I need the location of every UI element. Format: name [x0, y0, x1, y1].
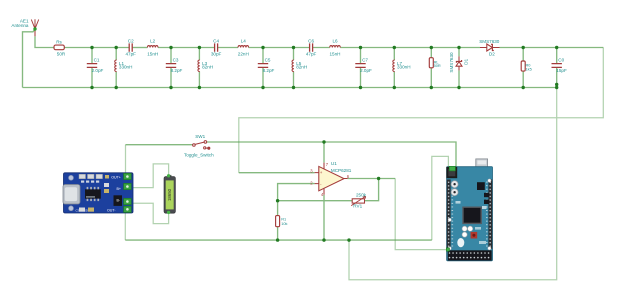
svg-text:82nH: 82nH [296, 64, 307, 69]
svg-text:50R: 50R [57, 52, 66, 57]
svg-text:L4: L4 [241, 39, 247, 44]
svg-text:8.2pF: 8.2pF [171, 68, 183, 73]
svg-text:Rs: Rs [56, 40, 62, 45]
svg-text:C2: C2 [128, 38, 134, 43]
svg-text:L2: L2 [150, 39, 156, 44]
svg-text:C6: C6 [308, 38, 314, 43]
svg-text:50R: 50R [434, 63, 441, 68]
svg-text:C0: C0 [558, 58, 564, 63]
svg-text:Toggle_Switch: Toggle_Switch [184, 153, 214, 158]
svg-text:30pF: 30pF [211, 52, 222, 57]
svg-text:D1: D1 [463, 58, 468, 64]
svg-text:47pF: 47pF [125, 52, 136, 57]
svg-text:1k5: 1k5 [526, 66, 532, 71]
svg-text:47pF: 47pF [306, 52, 317, 57]
svg-text:L6: L6 [332, 39, 338, 44]
svg-text:SW1: SW1 [195, 134, 205, 139]
svg-text:D2: D2 [489, 51, 495, 56]
svg-text:C7: C7 [362, 58, 368, 63]
svg-text:MCP6281: MCP6281 [331, 168, 352, 173]
svg-text:2.0pF: 2.0pF [360, 68, 372, 73]
svg-text:OUT-: OUT- [107, 208, 116, 212]
svg-text:RV1: RV1 [353, 203, 362, 208]
svg-text:C4: C4 [213, 38, 219, 43]
svg-text:330nH: 330nH [119, 64, 133, 69]
svg-text:B+: B+ [117, 187, 122, 191]
svg-text:82nH: 82nH [202, 64, 213, 69]
svg-text:U1: U1 [331, 161, 337, 166]
svg-text:C3: C3 [173, 58, 179, 63]
svg-text:8.2pF: 8.2pF [263, 68, 275, 73]
svg-text:C3: C3 [76, 209, 80, 213]
svg-text:22nH: 22nH [238, 52, 249, 57]
svg-text:15nH: 15nH [330, 52, 341, 57]
svg-text:15nH: 15nH [147, 52, 158, 57]
svg-text:SMS7630: SMS7630 [479, 39, 500, 44]
svg-text:C5: C5 [265, 58, 271, 63]
svg-text:SD: SD [84, 209, 88, 213]
svg-text:18650: 18650 [167, 188, 172, 201]
svg-text:C1: C1 [94, 58, 100, 63]
svg-text:250k: 250k [356, 193, 367, 198]
svg-text:Antenna: Antenna [11, 23, 29, 28]
svg-text:OUT+: OUT+ [111, 175, 121, 179]
svg-text:10k: 10k [281, 221, 287, 226]
svg-text:15pF: 15pF [556, 68, 567, 73]
svg-text:SMS7630: SMS7630 [449, 52, 454, 73]
svg-text:330nH: 330nH [397, 64, 411, 69]
svg-text:2.0pF: 2.0pF [92, 68, 104, 73]
